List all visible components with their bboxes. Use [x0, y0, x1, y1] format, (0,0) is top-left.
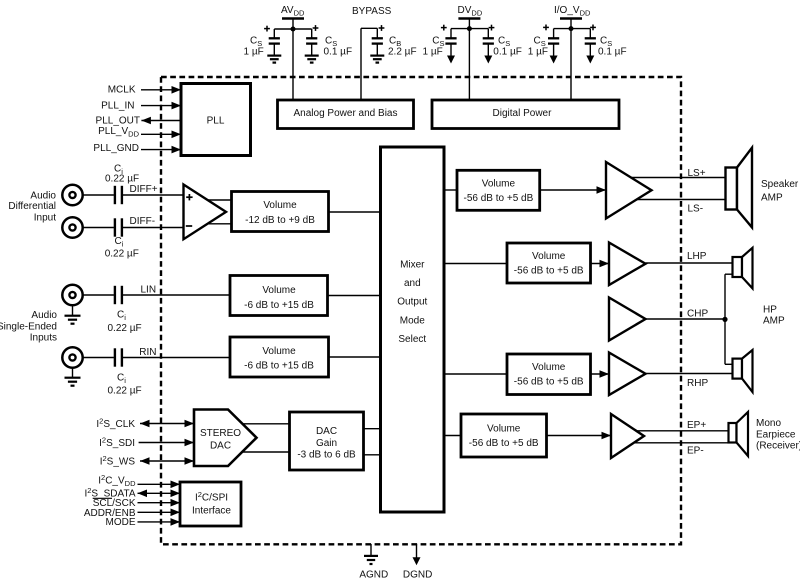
svg-text:MODE: MODE: [106, 517, 136, 528]
svg-text:and: and: [404, 278, 421, 289]
svg-text:AMP: AMP: [761, 193, 783, 204]
svg-text:-6 dB to +15 dB: -6 dB to +15 dB: [244, 361, 314, 372]
svg-text:Single-Ended: Single-Ended: [0, 321, 57, 332]
svg-text:Volume: Volume: [262, 285, 296, 296]
svg-text:RIN: RIN: [139, 347, 156, 358]
svg-text:0.22 µF: 0.22 µF: [105, 249, 139, 260]
svg-text:Inputs: Inputs: [30, 332, 57, 343]
svg-text:0.1 µF: 0.1 µF: [324, 47, 353, 58]
svg-text:Audio: Audio: [30, 190, 56, 201]
svg-text:Digital Power: Digital Power: [493, 108, 553, 119]
svg-text:-56 dB to +5 dB: -56 dB to +5 dB: [514, 377, 584, 388]
svg-text:MCLK: MCLK: [108, 85, 136, 96]
svg-text:-56 dB to +5 dB: -56 dB to +5 dB: [514, 266, 584, 277]
svg-text:BYPASS: BYPASS: [352, 6, 392, 17]
svg-text:-3 dB to 6 dB: -3 dB to 6 dB: [297, 450, 356, 461]
svg-text:EP+: EP+: [687, 420, 706, 431]
svg-text:Output: Output: [397, 297, 427, 308]
svg-text:AMP: AMP: [763, 316, 785, 327]
svg-text:Gain: Gain: [316, 438, 337, 449]
svg-text:DIFF-: DIFF-: [130, 216, 156, 227]
svg-text:LS-: LS-: [688, 204, 704, 215]
svg-text:Input: Input: [34, 212, 56, 223]
svg-text:AGND: AGND: [359, 569, 388, 580]
svg-text:Volume: Volume: [482, 178, 516, 189]
svg-text:Differential: Differential: [8, 201, 56, 212]
svg-text:HP: HP: [763, 304, 777, 315]
svg-text:Earpiece: Earpiece: [756, 429, 796, 440]
svg-text:DAC: DAC: [210, 441, 231, 452]
svg-text:0.1 µF: 0.1 µF: [493, 47, 522, 58]
svg-text:(Receiver): (Receiver): [756, 441, 800, 452]
svg-text:Mixer: Mixer: [400, 259, 425, 270]
svg-text:Volume: Volume: [263, 200, 297, 211]
svg-text:PLL_IN: PLL_IN: [101, 100, 134, 111]
svg-text:1 µF: 1 µF: [423, 47, 443, 58]
svg-text:Volume: Volume: [262, 346, 296, 357]
svg-text:Analog Power and Bias: Analog Power and Bias: [294, 108, 398, 119]
svg-text:2.2 µF: 2.2 µF: [388, 47, 417, 58]
svg-text:CHP: CHP: [687, 309, 708, 320]
svg-text:0.22 µF: 0.22 µF: [108, 386, 142, 397]
svg-text:PLL_GND: PLL_GND: [93, 143, 139, 154]
svg-text:Speaker: Speaker: [761, 179, 799, 190]
svg-text:Volume: Volume: [532, 251, 566, 262]
svg-text:0.22 µF: 0.22 µF: [108, 323, 142, 334]
svg-text:LIN: LIN: [141, 285, 157, 296]
svg-text:DGND: DGND: [403, 569, 432, 580]
svg-text:-6 dB to +15 dB: -6 dB to +15 dB: [244, 300, 314, 311]
svg-text:EP-: EP-: [687, 446, 704, 457]
svg-text:0.22 µF: 0.22 µF: [105, 174, 139, 185]
svg-text:Volume: Volume: [487, 424, 521, 435]
svg-text:Audio: Audio: [31, 310, 57, 321]
svg-text:RHP: RHP: [687, 378, 708, 389]
svg-text:1 µF: 1 µF: [244, 47, 264, 58]
svg-text:Interface: Interface: [192, 506, 231, 517]
svg-text:Mode: Mode: [400, 315, 425, 326]
svg-text:DAC: DAC: [316, 426, 337, 437]
svg-text:LS+: LS+: [688, 168, 706, 179]
svg-text:0.1 µF: 0.1 µF: [598, 47, 627, 58]
svg-text:-56 dB to +5 dB: -56 dB to +5 dB: [464, 193, 534, 204]
svg-text:DIFF+: DIFF+: [130, 184, 158, 195]
svg-text:Volume: Volume: [532, 362, 566, 373]
svg-text:-12 dB to +9 dB: -12 dB to +9 dB: [245, 215, 315, 226]
svg-text:Select: Select: [398, 334, 426, 345]
svg-text:PLL: PLL: [207, 115, 225, 126]
svg-text:1 µF: 1 µF: [528, 47, 548, 58]
svg-text:STEREO: STEREO: [200, 428, 241, 439]
svg-text:PLL_OUT: PLL_OUT: [96, 115, 140, 126]
svg-text:LHP: LHP: [687, 251, 707, 262]
svg-text:-56 dB to +5 dB: -56 dB to +5 dB: [469, 438, 539, 449]
svg-text:Mono: Mono: [756, 418, 781, 429]
